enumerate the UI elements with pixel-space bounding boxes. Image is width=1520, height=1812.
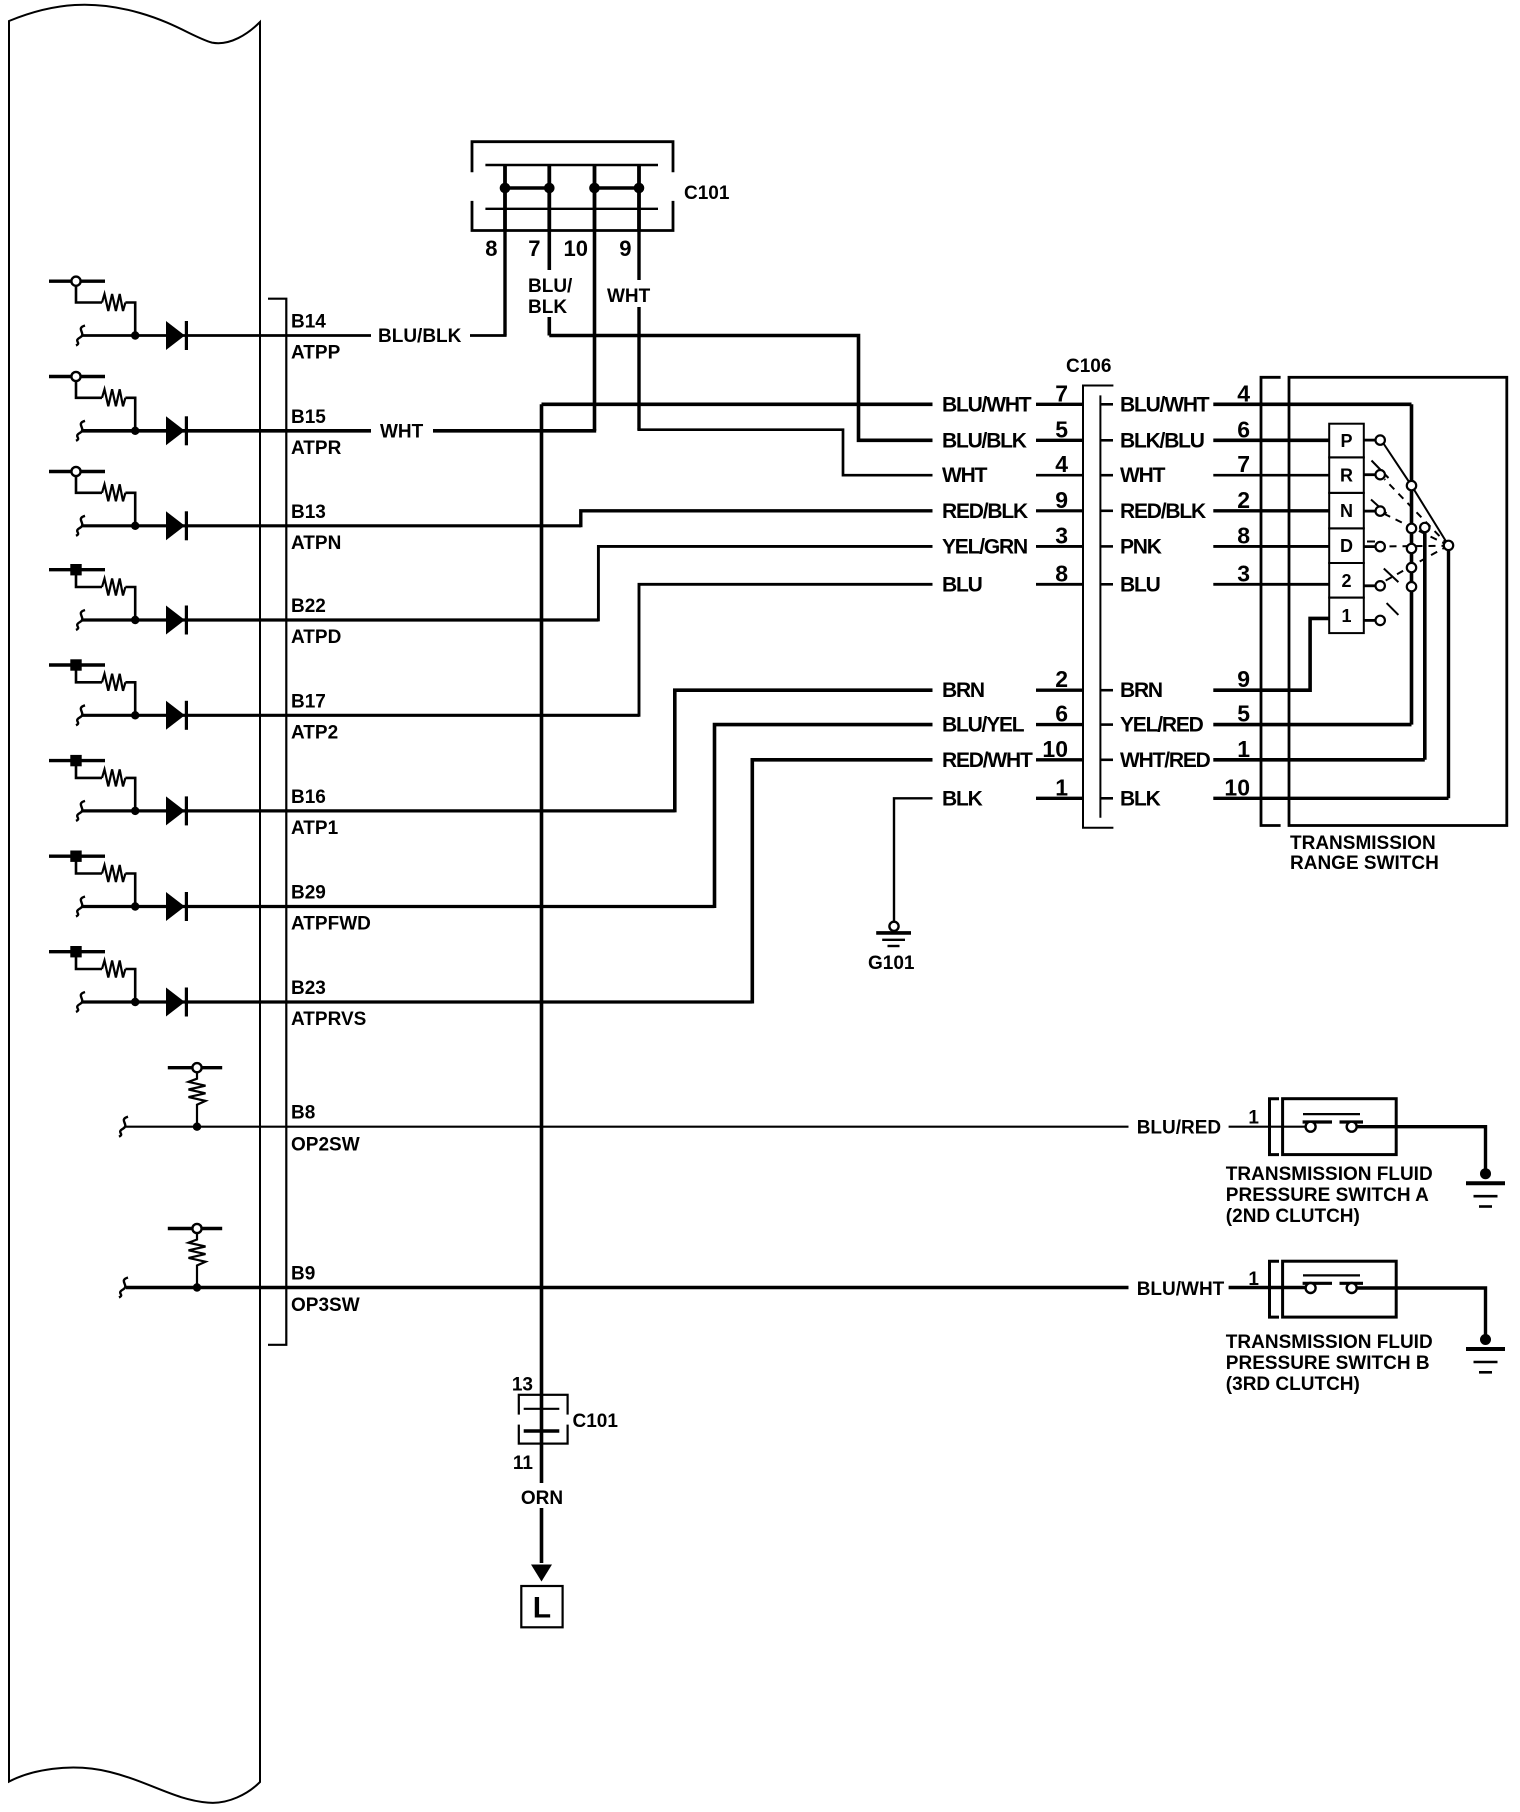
wire label BLU/BLK below C101 pin 7 <box>524 270 577 317</box>
wire ORN to taillight circuit L <box>540 1431 544 1563</box>
wire B23 row <box>82 1000 752 1003</box>
ECU pin header bracket <box>268 299 286 1345</box>
pull-up resistor network for ECU pin B13 <box>49 467 139 536</box>
wire C106 pin1 WHT/RED riser <box>1213 528 1425 760</box>
contact circle R <box>1376 470 1385 479</box>
svg-text:BLK: BLK <box>1120 787 1161 810</box>
contact circle 2 <box>1376 581 1385 590</box>
svg-text:4: 4 <box>1237 380 1250 406</box>
svg-text:G101: G101 <box>868 953 915 974</box>
svg-text:BLU/WHT: BLU/WHT <box>1120 393 1210 416</box>
svg-text:B15: B15 <box>291 407 326 428</box>
C106 row WHT pin 4 (left) / WHT pin 7 (right) <box>1036 474 1083 477</box>
switch B output wire to ground <box>1357 1288 1486 1336</box>
dashed blade common to R <box>1385 479 1449 545</box>
blade tick at R <box>1372 461 1389 479</box>
svg-text:P: P <box>1340 431 1352 451</box>
svg-text:1: 1 <box>1055 774 1068 800</box>
svg-text:PRESSURE SWITCH A: PRESSURE SWITCH A <box>1226 1185 1429 1206</box>
svg-text:PNK: PNK <box>1120 535 1162 558</box>
svg-text:BLK: BLK <box>942 787 983 810</box>
contact stub P <box>1364 439 1376 442</box>
contact stub D <box>1364 545 1376 548</box>
svg-text:2: 2 <box>1237 487 1250 513</box>
svg-text:BRN: BRN <box>1120 679 1162 702</box>
svg-text:8: 8 <box>1055 560 1068 586</box>
pull-up resistor network for ECU pin B22 <box>49 564 139 630</box>
connector C106 (10-way) left half <box>1083 386 1113 828</box>
wire from C101 pin 9 to C106 pin 4 (WHT) <box>637 232 640 430</box>
ECU control module (torn-edge outline) <box>9 5 260 1803</box>
connector C101 (4-way, top) outline <box>472 142 673 231</box>
C106 row BLU/YEL pin 6 (left) / YEL/RED pin 5 (right) <box>1036 723 1083 726</box>
svg-text:2: 2 <box>1055 666 1068 692</box>
dashed blade common to D <box>1385 545 1449 548</box>
svg-text:PRESSURE SWITCH B: PRESSURE SWITCH B <box>1226 1353 1430 1374</box>
svg-text:B14: B14 <box>291 312 326 333</box>
diode for pin B17 <box>166 701 188 730</box>
wire C106 pin6 BLK/BLU to P contact <box>1213 438 1329 442</box>
pull-up resistor network for ECU pin B23 <box>49 946 139 1012</box>
wire C106 pin5 YEL/RED riser <box>1213 404 1411 724</box>
wire C106 pin8 PNK to D contact <box>1213 545 1329 548</box>
svg-text:OP3SW: OP3SW <box>291 1295 360 1316</box>
selector position cell D <box>1329 528 1364 563</box>
wire B8 row (to pressure switch A, BLU/RED) <box>126 1126 1305 1128</box>
C101 inner bars <box>485 165 658 209</box>
wire from C101 pin 8 down to B14 row <box>503 232 506 336</box>
arrowhead <box>531 1565 552 1582</box>
svg-text:B8: B8 <box>291 1103 315 1124</box>
svg-text:7: 7 <box>1055 380 1068 406</box>
pull-up resistor network for ECU pin B14 <box>49 277 139 346</box>
svg-text:TRANSMISSION FLUID: TRANSMISSION FLUID <box>1226 1164 1433 1185</box>
contact circle c9 (WHT/RED) <box>1420 523 1429 532</box>
connector C106 right half <box>1099 395 1101 817</box>
selector position cell P <box>1329 424 1364 458</box>
svg-text:13: 13 <box>512 1375 533 1396</box>
svg-text:8: 8 <box>485 236 497 261</box>
svg-text:B29: B29 <box>291 883 326 904</box>
svg-text:TRANSMISSION: TRANSMISSION <box>1290 833 1436 854</box>
svg-text:BLU/WHT: BLU/WHT <box>1137 1279 1225 1300</box>
svg-text:BLU/YEL: BLU/YEL <box>942 714 1025 737</box>
svg-text:7: 7 <box>1237 451 1250 477</box>
svg-text:BLU/BLK: BLU/BLK <box>942 429 1027 452</box>
svg-text:7: 7 <box>528 236 540 261</box>
svg-text:ATP1: ATP1 <box>291 818 339 839</box>
wire from C101 pin 10 down to B15 row <box>593 232 597 431</box>
svg-text:(3RD CLUTCH): (3RD CLUTCH) <box>1226 1374 1360 1395</box>
svg-text:ATPD: ATPD <box>291 627 341 648</box>
wire B29 to C106 pin 6 (BLU/YEL) <box>715 725 933 908</box>
svg-text:ATPRVS: ATPRVS <box>291 1009 366 1030</box>
C106 row RED/BLK pin 9 (left) / RED/BLK pin 2 (right) <box>1036 509 1083 512</box>
wire label WHT below C101 pin 9 <box>603 280 654 307</box>
switch A output wire to ground <box>1357 1127 1486 1170</box>
wire B9 row (to pressure switch B, BLU/WHT) <box>126 1286 1305 1289</box>
svg-text:R: R <box>1340 466 1353 486</box>
diode for pin B14 <box>166 321 188 350</box>
svg-text:WHT: WHT <box>380 422 424 443</box>
svg-text:B9: B9 <box>291 1264 315 1285</box>
C101 internal jumpers (pin8-7, pin10-9) <box>505 186 639 190</box>
diode for pin B16 <box>166 796 188 825</box>
svg-text:WHT: WHT <box>1120 464 1166 487</box>
pull-up resistor network for ECU pin B15 <box>49 372 139 441</box>
contact stub 1 <box>1364 619 1376 622</box>
contact stub N <box>1364 510 1376 513</box>
svg-text:2: 2 <box>1341 571 1351 591</box>
svg-text:C101: C101 <box>684 183 730 204</box>
transmission fluid pressure switch B connector bracket <box>1270 1261 1280 1317</box>
svg-text:9: 9 <box>1237 666 1250 692</box>
switch B bridge bar and contact plates <box>1303 1274 1360 1276</box>
C106 row BLU/WHT pin 7 (left) / BLU/WHT pin 4 (right) <box>1036 403 1083 406</box>
ground for switch B <box>1480 1334 1491 1345</box>
C106 row BLU/BLK pin 5 (left) / BLK/BLU pin 6 (right) <box>1036 439 1083 442</box>
contact circle c10 <box>1407 544 1416 553</box>
transmission fluid pressure switch B body <box>1283 1261 1397 1317</box>
C106 row BLU pin 8 (left) / BLU pin 3 (right) <box>1036 583 1083 586</box>
contact stub 2 <box>1364 584 1376 587</box>
selector position cell 2 <box>1329 563 1364 598</box>
svg-text:BLK: BLK <box>528 297 567 318</box>
svg-text:BLU/: BLU/ <box>528 276 573 297</box>
svg-text:BLU/BLK: BLU/BLK <box>378 326 462 347</box>
svg-text:8: 8 <box>1237 522 1250 548</box>
wire C106 pin7 WHT to R contact <box>1213 474 1329 477</box>
selector position cell 1 <box>1329 598 1364 634</box>
C106 row YEL/GRN pin 3 (left) / PNK pin 8 (right) <box>1036 545 1083 548</box>
C106 row BRN pin 2 (left) / BRN pin 9 (right) <box>1036 689 1083 692</box>
wire B17 to C106 pin 8 (BLU) <box>639 584 933 717</box>
svg-text:9: 9 <box>619 236 631 261</box>
pull-down resistor network for ECU pin B8 <box>119 1063 222 1137</box>
wire B22 to C106 pin 3 (YEL/GRN) <box>598 546 932 621</box>
contact circle D <box>1376 542 1385 551</box>
svg-text:BLU/WHT: BLU/WHT <box>942 393 1032 416</box>
blade tick at 1 <box>1387 603 1399 615</box>
common pivot circle (BLK) <box>1444 541 1453 550</box>
svg-text:YEL/RED: YEL/RED <box>1120 714 1204 737</box>
svg-text:1: 1 <box>1248 1269 1259 1290</box>
svg-text:(2ND CLUTCH): (2ND CLUTCH) <box>1226 1206 1360 1227</box>
svg-text:1: 1 <box>1248 1108 1259 1129</box>
svg-text:OP2SW: OP2SW <box>291 1134 360 1155</box>
svg-text:D: D <box>1340 536 1353 556</box>
svg-text:YEL/GRN: YEL/GRN <box>942 535 1027 558</box>
svg-text:RED/WHT: RED/WHT <box>942 749 1033 772</box>
pull-down resistor network for ECU pin B9 <box>119 1224 222 1298</box>
svg-text:4: 4 <box>1055 451 1068 477</box>
svg-text:9: 9 <box>1055 487 1068 513</box>
dashed blade common to 2 <box>1384 545 1449 581</box>
svg-text:BLK/BLU: BLK/BLU <box>1120 429 1204 452</box>
svg-text:3: 3 <box>1237 560 1250 586</box>
svg-text:RANGE SWITCH: RANGE SWITCH <box>1290 853 1439 874</box>
connector C101 (bottom, pin 13/11) <box>519 1395 568 1444</box>
contact circle 1 <box>1376 616 1385 625</box>
contact stub R <box>1364 473 1376 476</box>
range switch connector bracket <box>1261 377 1281 825</box>
svg-text:ATPN: ATPN <box>291 533 341 554</box>
transmission fluid pressure switch A connector bracket <box>1270 1099 1280 1155</box>
svg-text:B17: B17 <box>291 691 326 712</box>
svg-text:BRN: BRN <box>942 679 984 702</box>
selector position cell N <box>1329 493 1364 529</box>
C106 row RED/WHT pin 10 (left) / WHT/RED pin 1 (right) <box>1036 758 1083 761</box>
wire B16 to C106 pin 2 (BRN) <box>675 690 933 812</box>
svg-text:1: 1 <box>1237 736 1250 762</box>
wire B15 (WHT) <box>82 429 596 433</box>
svg-text:ATPFWD: ATPFWD <box>291 914 371 935</box>
svg-text:B22: B22 <box>291 596 326 617</box>
contact circle N <box>1376 506 1385 515</box>
svg-text:ATP2: ATP2 <box>291 722 338 743</box>
ground for switch A <box>1480 1168 1491 1179</box>
svg-text:TRANSMISSION FLUID: TRANSMISSION FLUID <box>1226 1332 1433 1353</box>
transmission fluid pressure switch A body <box>1283 1099 1397 1155</box>
svg-text:ATPR: ATPR <box>291 438 342 459</box>
svg-text:ORN: ORN <box>521 1488 563 1509</box>
switch B contacts <box>1306 1283 1316 1293</box>
svg-text:11: 11 <box>513 1453 534 1474</box>
svg-text:C101: C101 <box>573 1411 619 1432</box>
contact circle c12 <box>1407 582 1416 591</box>
svg-text:BLU: BLU <box>1120 573 1160 596</box>
svg-text:RED/BLK: RED/BLK <box>942 500 1028 523</box>
dashed blade common to N <box>1385 514 1449 545</box>
svg-text:N: N <box>1340 501 1353 521</box>
transmission range switch box <box>1289 377 1507 825</box>
wire C106 pin2 RED/BLK to N contact <box>1213 509 1329 512</box>
C101 pins 8,7,10,9 <box>505 165 639 231</box>
svg-text:WHT/RED: WHT/RED <box>1120 749 1211 772</box>
svg-text:10: 10 <box>1224 774 1250 800</box>
wire B23 to C106 pin 10 (RED/WHT) <box>752 760 932 1004</box>
C106 row BLK pin 1 (left) / BLK pin 10 (right) <box>1036 797 1083 800</box>
pull-up resistor network for ECU pin B29 <box>49 851 139 917</box>
wire B13 to C106 pin 9 (RED/BLK) <box>581 511 933 527</box>
wire B16 row <box>82 809 675 812</box>
blade tick at N <box>1371 500 1387 514</box>
wire B13 row <box>82 524 581 527</box>
wire B22 row <box>82 618 598 621</box>
svg-text:C106: C106 <box>1066 356 1111 377</box>
diode for pin B15 <box>166 416 188 445</box>
svg-text:5: 5 <box>1237 701 1250 727</box>
contact circle BLU/WHT (c7) <box>1407 481 1416 490</box>
svg-text:L: L <box>533 1592 551 1625</box>
ground G101 <box>889 922 898 931</box>
pull-up resistor network for ECU pin B16 <box>49 755 139 821</box>
svg-text:10: 10 <box>564 236 588 261</box>
switch A contacts <box>1306 1122 1316 1132</box>
diode for pin B13 <box>166 511 188 540</box>
svg-text:1: 1 <box>1341 606 1351 626</box>
svg-text:5: 5 <box>1055 416 1068 442</box>
svg-text:B23: B23 <box>291 978 326 999</box>
wire B29 row <box>82 905 715 908</box>
svg-text:3: 3 <box>1055 522 1068 548</box>
diode for pin B22 <box>166 606 188 635</box>
switch blade P to BLU/WHT contact (solid) <box>1384 444 1449 546</box>
blade tick at D <box>1367 541 1375 543</box>
svg-text:WHT: WHT <box>607 286 651 307</box>
wire C106 pin3 BLU to 2 contact <box>1213 583 1329 586</box>
wire B17 row <box>82 714 639 717</box>
wire C106 pin9 BRN to 1 contact <box>1213 618 1329 690</box>
svg-text:BLU/RED: BLU/RED <box>1137 1118 1221 1139</box>
svg-text:10: 10 <box>1042 736 1068 762</box>
diode for pin B23 <box>166 988 188 1017</box>
svg-text:6: 6 <box>1237 416 1250 442</box>
destination box L <box>521 1586 562 1627</box>
svg-text:BLU: BLU <box>942 573 982 596</box>
contact circle P <box>1376 435 1385 444</box>
svg-text:B13: B13 <box>291 502 326 523</box>
svg-text:ATPP: ATPP <box>291 343 341 364</box>
wire C106 pin10 BLK riser to switch common <box>1213 545 1448 798</box>
blade tick at 2 <box>1384 569 1399 583</box>
wire from C101 pin 7 to C106 pin 5 (BLU/BLK) <box>549 232 932 441</box>
wire B14 (BLU/BLK) <box>82 334 507 337</box>
pull-up resistor network for ECU pin B17 <box>49 659 139 725</box>
svg-text:RED/BLK: RED/BLK <box>1120 500 1206 523</box>
wire C106 pin 1 (BLK) to ground G101 <box>894 798 933 922</box>
selector position cell R <box>1329 457 1364 493</box>
svg-text:6: 6 <box>1055 701 1068 727</box>
wire BLU/WHT net: C106 pin 7 to bottom C101 pin 13 <box>542 404 933 1431</box>
contact circle c8 <box>1407 524 1416 533</box>
wire C106 pin4 BLU/WHT into range switch <box>1213 402 1411 406</box>
contact circle c11 <box>1407 563 1416 572</box>
svg-text:B16: B16 <box>291 787 326 808</box>
svg-text:WHT: WHT <box>942 464 988 487</box>
switch A bridge bar and contact plates <box>1303 1113 1360 1115</box>
diode for pin B29 <box>166 892 188 921</box>
